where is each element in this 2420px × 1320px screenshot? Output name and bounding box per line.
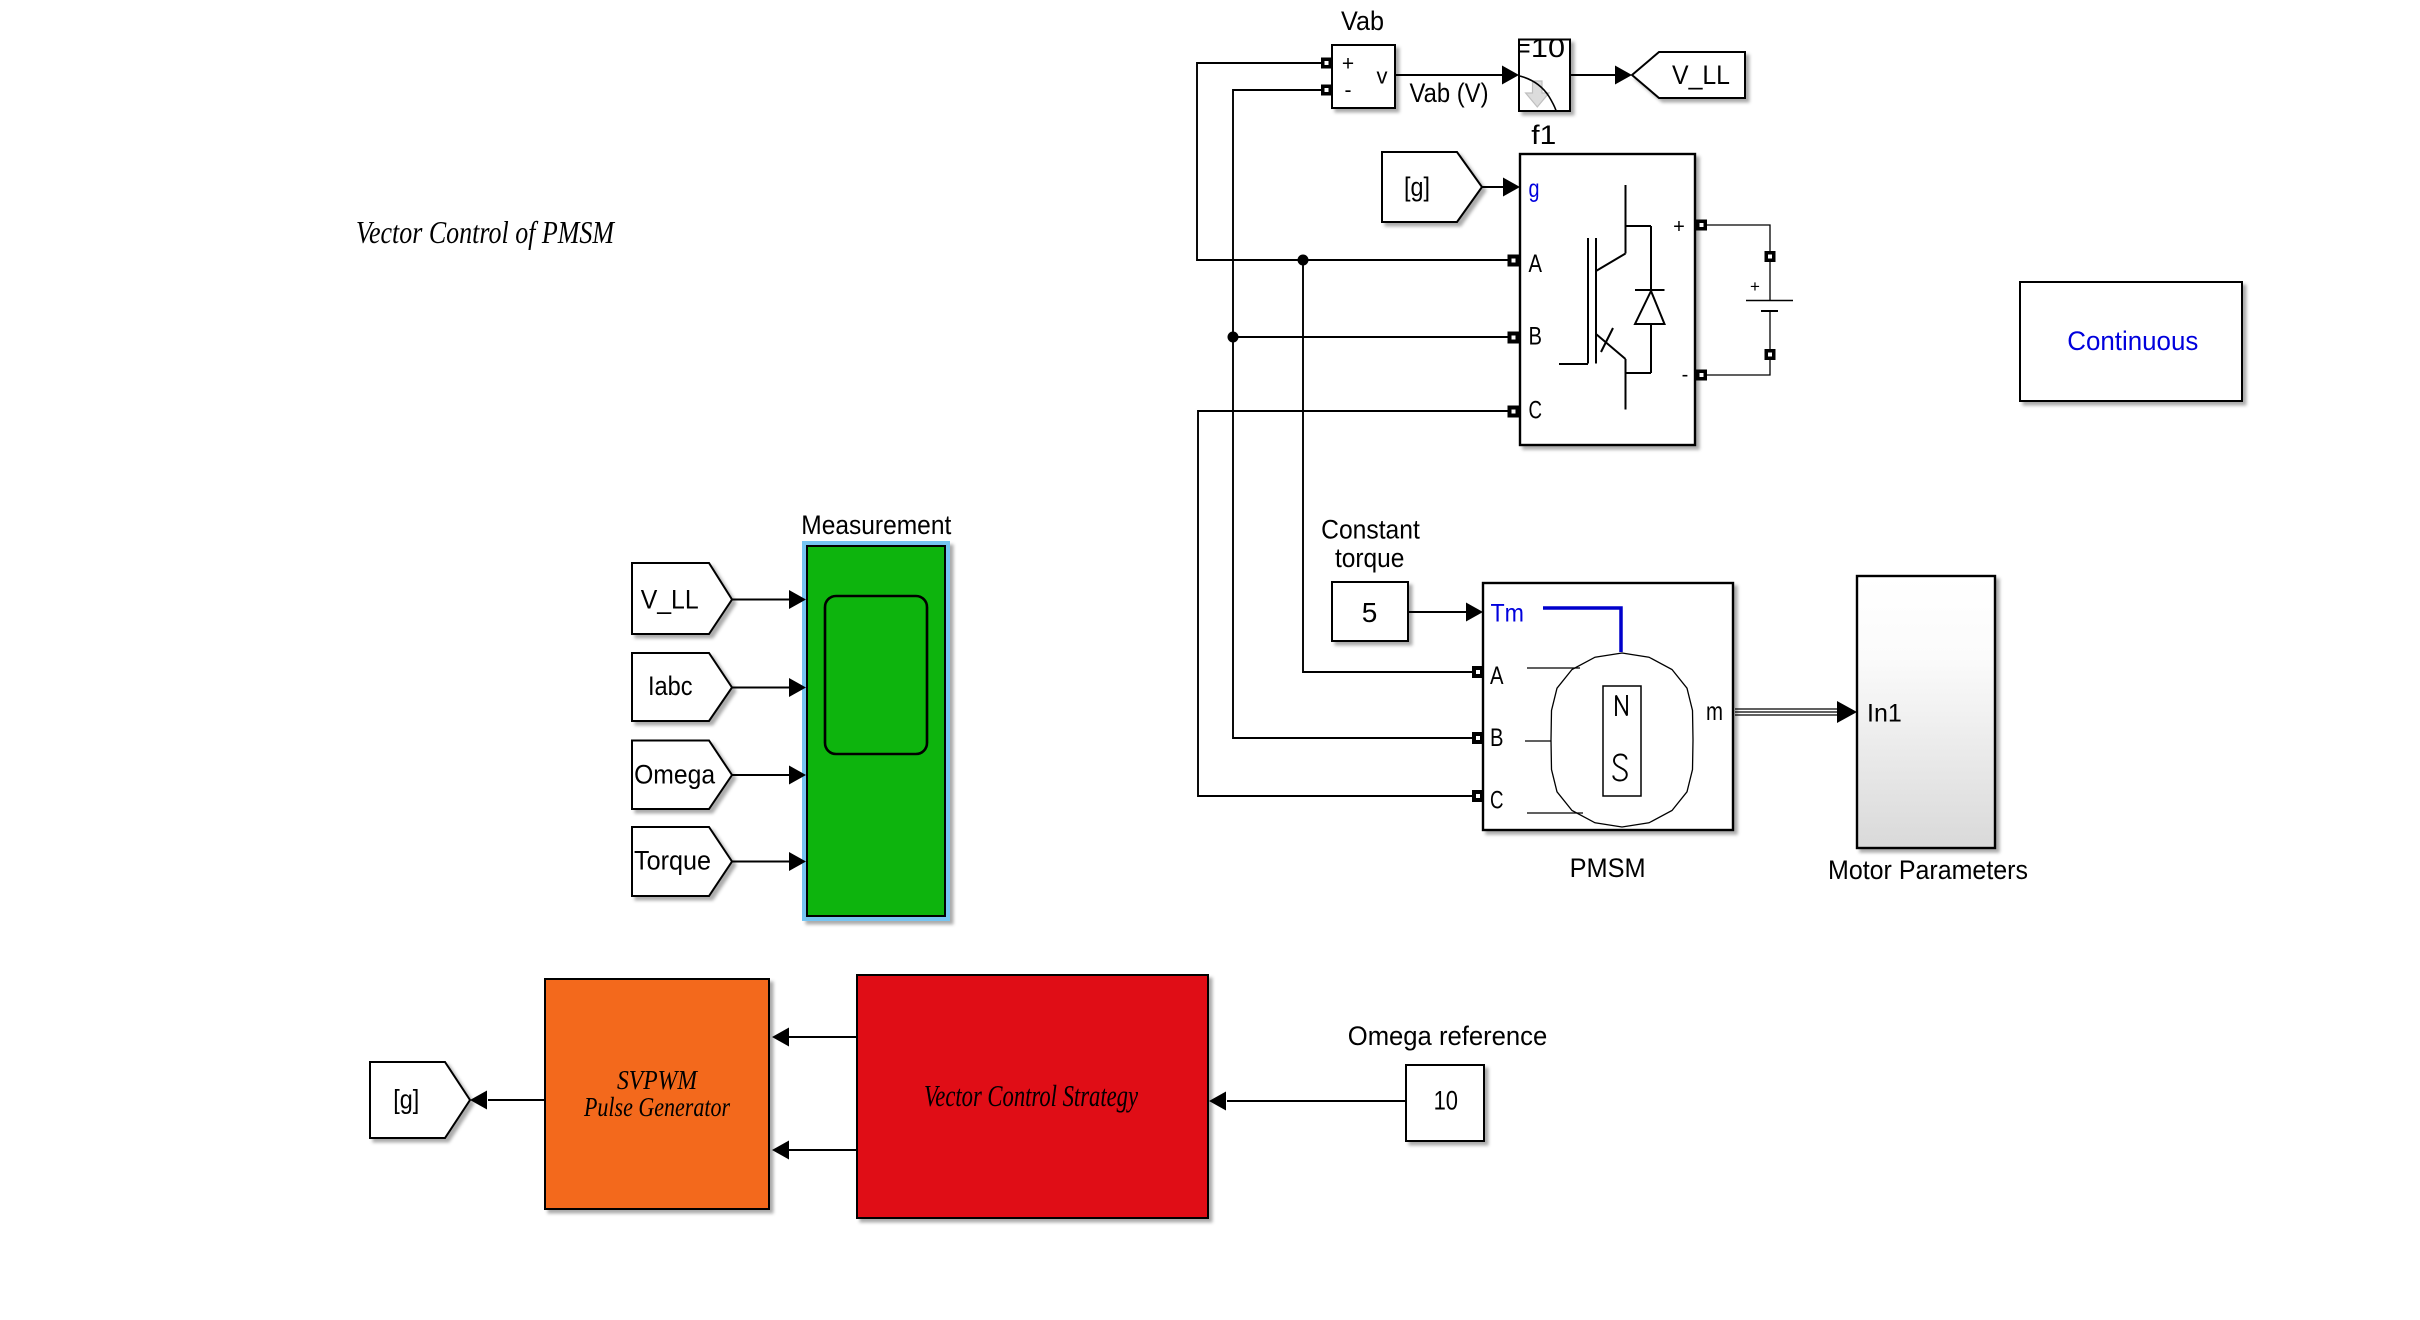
svg-text:g: g [1529,175,1540,203]
wire f1 to V_LL goto tag [1570,74,1617,76]
wire 10 to Vector Control Strategy [1227,1100,1406,1102]
wire Vector Control Strategy to SVPWM (lower) [789,1149,857,1151]
stator lead line C [1527,812,1583,814]
goto tag V_LL (top) [1632,52,1745,98]
svg-text:Continuous: Continuous [2067,326,2198,356]
stator lead line A [1527,667,1580,669]
gray down-arrow icon inside f1 [1526,81,1549,107]
from tag V_LL [632,563,732,634]
inverter block (universal bridge) [1520,154,1695,445]
DC battery symbol [1746,262,1793,349]
svg-text:Torque: Torque [634,846,711,876]
from tag Omega [632,741,732,810]
svg-text:C: C [1490,787,1504,815]
powergui block Continuous [2020,282,2242,401]
wire Vector Control Strategy to SVPWM (upper) [789,1036,857,1038]
svg-text:Vab (V): Vab (V) [1410,78,1489,108]
blue Tm internal wire [1543,608,1621,652]
wire phase A : Vab+ to inverter A with branch to PMSM A [1197,63,1508,260]
wire branch B to inverter [1233,336,1508,338]
svg-text:torque: torque [1335,543,1405,573]
port pin PMSM A [1472,666,1484,678]
svg-text:[g]: [g] [1404,172,1430,202]
svg-text:-: - [1682,364,1689,386]
svg-text:Pulse Generator: Pulse Generator [583,1092,730,1122]
svg-text:Vector Control Strategy: Vector Control Strategy [924,1078,1138,1113]
junction node on wire A [1298,255,1309,266]
voltage measurement block Vab [1332,45,1395,108]
wire [g] to inverter g input [1482,186,1504,188]
battery - port pin [1765,349,1776,360]
constant block 5 [1332,582,1408,641]
svg-text:A: A [1529,250,1543,278]
filter block f1 [1519,40,1570,112]
IGBT symbol inside inverter [1559,185,1651,410]
port pin PMSM C [1472,790,1484,802]
from tag Iabc [632,653,732,721]
svg-text:5: 5 [1362,597,1378,628]
port pin inverter + [1696,220,1707,231]
svg-text:C: C [1529,397,1543,425]
port pin Vab - [1321,85,1332,96]
svg-text:Iabc: Iabc [648,671,693,701]
response curve inside f1 [1520,76,1556,111]
junction node on wire B [1228,332,1239,343]
wire Torque to scope [732,861,790,863]
port pin inverter - [1696,370,1707,381]
magnet rectangle with N S [1603,686,1641,796]
wire inverter + to battery [1707,225,1770,251]
subsystem block Motor Parameters [1857,576,1995,848]
wire Vab v output to filter f1 [1395,74,1504,76]
svg-text:Omega: Omega [634,760,716,790]
battery + port pin [1765,251,1776,262]
svg-text:Measurement: Measurement [801,510,951,540]
svg-text:v: v [1377,64,1388,89]
svg-text:+: + [1750,277,1760,296]
svg-text:+: + [1673,216,1685,238]
svg-text:f1: f1 [1531,120,1556,150]
wire battery - to inverter - [1707,360,1770,375]
wire V_LL to scope [732,599,790,601]
bus wire m to Motor Parameters [1735,709,1845,715]
svg-text:[g]: [g] [393,1085,419,1115]
svg-text:+: + [1342,53,1354,76]
wire Omega to scope [732,774,790,776]
port pin Vab + [1321,58,1332,69]
svg-text:Omega reference: Omega reference [1348,1021,1548,1051]
PMSM block [1483,583,1733,830]
subsystem block Vector Control Strategy [857,975,1208,1218]
wire Iabc to scope [732,687,790,689]
port pin inverter B [1508,332,1520,344]
port pin inverter C [1508,406,1520,418]
wire phase B : Vab- to PMSM B with branch to inverter B [1233,90,1478,738]
svg-text:10: 10 [1434,1086,1458,1116]
svg-text:V_LL: V_LL [641,585,699,615]
motor rotor ellipse [1551,653,1693,827]
diode symbol inside inverter [1635,226,1665,373]
port pin inverter A [1508,255,1520,267]
svg-text:V_LL: V_LL [1672,60,1730,90]
svg-text:B: B [1490,724,1504,752]
svg-text:-: - [1345,79,1352,102]
stator lead line B [1525,740,1551,742]
wire phase C : inverter C to PMSM C [1198,411,1508,796]
svg-text:B: B [1529,323,1543,351]
svg-text:Vector Control of PMSM: Vector Control of PMSM [356,214,616,250]
from tag Torque [632,827,732,896]
goto tag [g] (bottom) [370,1062,470,1138]
svg-text:Vab: Vab [1341,6,1384,36]
wire SVPWM to [g] [488,1099,545,1101]
svg-text:Tm: Tm [1491,600,1525,628]
wire constant 5 to PMSM Tm [1408,611,1467,613]
constant block 10 [1406,1065,1484,1141]
svg-text:m: m [1706,696,1723,726]
subsystem block SVPWM Pulse Generator [545,979,769,1209]
svg-text:A: A [1490,662,1504,690]
svg-text:PMSM: PMSM [1570,853,1646,883]
from tag [g] (top) [1382,152,1482,222]
svg-text:Constant: Constant [1321,515,1420,545]
svg-text:In1: In1 [1867,700,1902,728]
svg-text:Motor Parameters: Motor Parameters [1828,855,2028,885]
scope block Measurement [802,541,950,921]
svg-text:SVPWM: SVPWM [617,1065,698,1095]
wire branch A to PMSM [1303,260,1478,672]
port pin PMSM B [1472,732,1484,744]
